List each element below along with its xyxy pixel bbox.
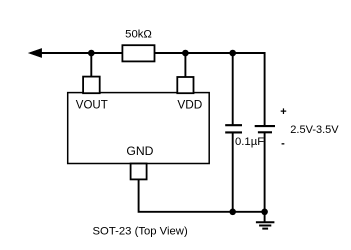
- svg-text:+: +: [280, 106, 286, 118]
- pin 1 VOUT pad: [83, 77, 100, 94]
- wire: top rail from arrow to battery branch with bend down to battery: [40, 53, 265, 126]
- svg-text:-: -: [281, 138, 285, 150]
- capacitor C 0.1uF: top lead: [232, 53, 234, 125]
- pin 3 GND pad: [131, 164, 147, 180]
- ground symbol: [256, 222, 275, 228]
- capacitor C 0.1uF: bottom lead: [232, 133, 234, 212]
- svg-text:SOT-23 (Top View): SOT-23 (Top View): [93, 225, 188, 237]
- battery BT: bottom lead to ground: [264, 133, 266, 222]
- svg-text:0.1µF: 0.1µF: [235, 136, 264, 148]
- node: junction battery at ground rail: [261, 209, 268, 216]
- svg-text:GND: GND: [126, 144, 153, 158]
- arrow (output, pointing left): [29, 49, 42, 58]
- IC U1 SOT-23 body: [68, 93, 210, 164]
- capacitor C 0.1uF: bottom plate: [225, 131, 242, 133]
- node: junction capacitor at ground rail: [229, 209, 236, 216]
- node: junction at VDD branch: [182, 50, 189, 57]
- wire: VOUT pin drop: [90, 53, 92, 78]
- svg-text:VOUT: VOUT: [76, 100, 108, 112]
- svg-text:2.5V-3.5V: 2.5V-3.5V: [290, 124, 339, 136]
- node: junction at VOUT branch: [88, 50, 95, 57]
- svg-text:VDD: VDD: [177, 97, 202, 111]
- battery BT 2.5V-3.5V: negative short plate: [258, 131, 272, 133]
- resistor 50k ohm: [122, 45, 154, 61]
- svg-text:50kΩ: 50kΩ: [125, 29, 152, 41]
- battery BT 2.5V-3.5V: positive long plate: [255, 125, 275, 127]
- capacitor C 0.1uF: top plate: [225, 124, 242, 126]
- pin 2 VDD pad: [177, 77, 193, 93]
- node: junction at capacitor branch (top): [229, 50, 236, 57]
- wire: GND pin down and right to ground rail: [139, 179, 265, 211]
- wire: VDD pin drop: [184, 53, 186, 78]
